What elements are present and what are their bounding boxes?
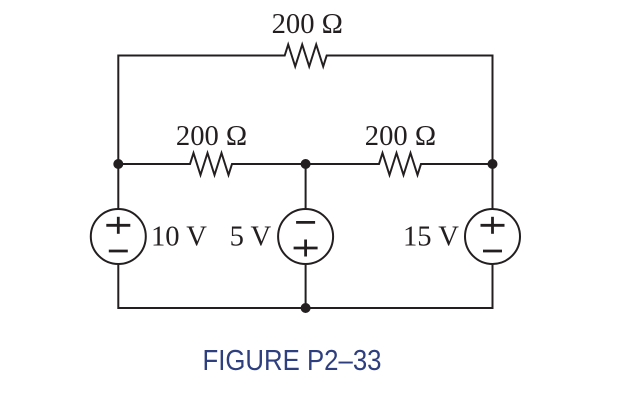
svg-text:200 Ω: 200 Ω [272, 9, 343, 40]
svg-text:15 V: 15 V [403, 222, 459, 253]
svg-text:FIGURE P2–33: FIGURE P2–33 [203, 345, 382, 377]
svg-text:10 V: 10 V [151, 222, 207, 253]
svg-text:5 V: 5 V [230, 222, 272, 253]
svg-text:200 Ω: 200 Ω [176, 121, 247, 152]
svg-text:200 Ω: 200 Ω [365, 121, 436, 152]
